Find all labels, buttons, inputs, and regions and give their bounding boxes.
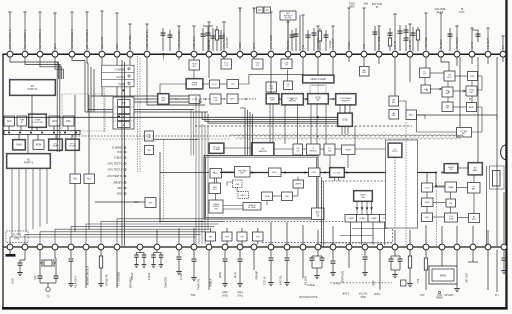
block RL2 (84, 174, 95, 184)
red scan specks on dashed connectors (59, 89, 470, 222)
svg-text:OUT: OUT (459, 10, 465, 14)
pin 1 (top) stub and label (8, 12, 12, 51)
pin 21 (top) stub and label (331, 26, 335, 51)
svg-text:VBK: VBK (161, 100, 166, 102)
wires right column (427, 168, 474, 218)
svg-text:FP AGO: FP AGO (445, 294, 454, 297)
wire OO FRST down (394, 157, 396, 228)
pin 19 (top) circle (300, 51, 306, 57)
long stub below pin 45 (209, 250, 213, 290)
dashed band y136 left part (72, 135, 230, 137)
wire HB VB to bus corner (154, 139, 198, 221)
horizontal bus y117 (3, 116, 338, 118)
svg-text:TRAP: TRAP (448, 186, 454, 189)
block AV SW2 (389, 110, 399, 120)
wire y96 into port column (91, 96, 120, 118)
pin 23 (top) circle (361, 51, 367, 57)
pin 64 (bottom) circle (501, 244, 507, 250)
stub below pin 62 (468, 250, 478, 262)
capacitor cluster C-top1 (x203-213) (201, 26, 216, 51)
capacitor C-b6 below pin 44 (191, 250, 197, 281)
stub below pin 56 and BAT V label (343, 250, 380, 296)
stub below pin 48 (253, 250, 255, 270)
svg-text:(O2): (O2) (437, 295, 442, 297)
svg-text:DET: DET (462, 133, 467, 135)
svg-text:O-BUS: O-BUS (114, 157, 122, 160)
block H/12 (210, 80, 220, 88)
pin 31 (top) stub and label (486, 28, 490, 51)
svg-text:SW: SW (214, 208, 217, 210)
block 3Y ASL (468, 183, 481, 194)
svg-text:OUT: OUT (252, 43, 256, 49)
top components x388-420 (caps and resistors) (388, 25, 420, 51)
svg-text:DET: DET (469, 92, 474, 94)
pin 37 (bottom) circle (68, 244, 74, 250)
connector box below pin 60 (429, 250, 457, 284)
svg-text:TRAP FIL: TRAP FIL (197, 278, 201, 290)
svg-text:KEY MATRIX 0: KEY MATRIX 0 (8, 29, 12, 49)
svg-text:0.68uF: 0.68uF (209, 278, 213, 287)
block J2 (right edge) (490, 166, 505, 189)
wire top pin 5 to clock bundle (72, 57, 85, 61)
wire top x163 components (161, 28, 173, 51)
capacitor C-b2 below pin 37 (68, 250, 74, 287)
svg-text:RAM: RAM (16, 144, 21, 147)
block B DEMOD (307, 144, 321, 155)
dashed band y139 (90, 138, 230, 140)
pin 15 (top) stub and label (238, 8, 242, 51)
svg-text:CLAMP: CLAMP (213, 148, 221, 151)
wires right-top section (395, 57, 482, 132)
svg-text:-NAV: -NAV (133, 201, 139, 204)
svg-text:DIV: DIV (256, 65, 260, 67)
svg-text:+: + (361, 252, 363, 256)
block PAL PAT DET (235, 167, 251, 178)
capacitor C-b10 below pin 50 (284, 250, 290, 286)
svg-text:CPU TEST 1: CPU TEST 1 (108, 169, 123, 172)
IC body top edge (2, 53, 505, 55)
block MG BYPASS ECTM (top) (280, 11, 296, 20)
block TNT (210, 169, 222, 179)
pin 20 (top) circle (315, 51, 321, 57)
wire top pin 6 to clock bundle (87, 57, 88, 63)
svg-text:SP MUTE: SP MUTE (105, 274, 109, 286)
svg-text:GND: GND (11, 278, 15, 284)
svg-text:EXTEND: EXTEND (248, 207, 257, 209)
wires in video box (215, 172, 257, 209)
svg-text:CLAMP: CLAMP (348, 217, 355, 220)
clock output label table C.WAKE/CLOCK/CLKB (102, 65, 135, 91)
block BPF (468, 72, 478, 81)
svg-text:DEMOD: DEMOD (309, 150, 317, 152)
svg-text:SUM: SUM (449, 218, 454, 220)
svg-text:(220): (220) (218, 272, 222, 278)
wires I/O SW down stubs (335, 177, 339, 181)
junction dots main line (251, 116, 437, 187)
svg-text:FRST: FRST (392, 151, 398, 153)
block TONE COUPLER (28, 114, 47, 128)
pin 45 (bottom) circle (206, 244, 212, 250)
pin 4 (top) circle (52, 51, 58, 57)
svg-text:VDD: VDD (360, 296, 365, 299)
svg-text:AMP: AMP (473, 169, 478, 172)
svg-text:TNT: TNT (214, 173, 219, 175)
wire RL2 up (88, 95, 90, 174)
vertical wire x478 (477, 57, 479, 163)
pin 1 (top) circle (7, 51, 13, 57)
block HB VB (left mid) (145, 131, 154, 141)
wire SELL to right edge (417, 115, 498, 120)
svg-text:H/12: H/12 (212, 84, 217, 86)
wire top pin 1 to I/O PORT R (10, 57, 59, 79)
svg-text:LVB: LVB (214, 100, 218, 102)
pin 24 (top) circle (376, 51, 382, 57)
block CB 5V (293, 144, 303, 155)
svg-text:SACS: SACS (240, 194, 246, 197)
svg-text:HCB OUT: HCB OUT (192, 36, 196, 49)
pin 48 (bottom) circle (251, 244, 257, 250)
block OO FRST (388, 143, 403, 158)
pin 54 (bottom) circle (346, 244, 352, 250)
pin 62 (bottom) circle (470, 244, 476, 250)
capacitor pair below pin 57 (389, 250, 403, 278)
pin 10 (top) stub and label (145, 24, 149, 51)
pin 35 (bottom) circle (37, 244, 43, 250)
svg-text:OSC: OSC (66, 121, 71, 123)
svg-text:KEY MATRIX 1: KEY MATRIX 1 (23, 29, 27, 49)
pin 18 (top) stub and label (286, 22, 290, 51)
pin 28 (top) circle (438, 51, 444, 57)
block AV SEL (389, 96, 399, 106)
svg-text:OSD: OSD (342, 119, 348, 122)
wire bottom pin 38 riser (86, 224, 219, 245)
svg-text:P.SIG: P.SIG (347, 41, 351, 49)
dashed vertical x406 (405, 122, 407, 246)
block AFI (422, 213, 433, 222)
dashed enclosure clock generator (62, 94, 105, 131)
block ADD CYL (312, 208, 325, 220)
svg-text:SYO: SYO (213, 189, 218, 191)
svg-text:SDA: SDA (115, 43, 119, 49)
svg-text:SIF OUT: SIF OUT (465, 272, 469, 283)
pin 30 (top) circle (469, 51, 475, 57)
wire bottom pin 36 riser (55, 229, 210, 244)
block I/O SW (329, 167, 345, 178)
svg-text:ACB OUT: ACB OUT (74, 276, 78, 288)
pin 17 (top) stub and label (269, 12, 273, 51)
pin 2 (top) circle (22, 51, 28, 57)
svg-text:TRAP: TRAP (345, 149, 351, 152)
capacitor pair C-b4 below pin 42 (147, 250, 163, 280)
block ROM (33, 140, 44, 150)
svg-text:(22u): (22u) (237, 292, 243, 294)
svg-text:(220): (220) (222, 292, 228, 294)
pin 55 (bottom) circle (362, 244, 368, 250)
wire RS1 up (74, 95, 76, 174)
pin 41 (bottom) circle (137, 244, 143, 250)
vertical bus group x245-252 into video box (240, 108, 253, 156)
pin 19 (top) stub and label (301, 15, 305, 51)
stub below pin 51 (302, 250, 304, 278)
vertical double bus right of PORT R (56, 62, 58, 152)
block TRAP2 (445, 182, 457, 192)
block RS1 (70, 174, 81, 184)
stub below pin 61 (454, 250, 460, 292)
video processor enclosure box (204, 156, 318, 220)
svg-text:CLAMP: CLAMP (359, 217, 366, 220)
svg-text:E.WAKE: E.WAKE (112, 147, 122, 150)
vertical wire x122 (122, 60, 125, 246)
svg-text:IN: IN (266, 9, 269, 12)
svg-text:VDD: VDD (117, 193, 122, 196)
capacitor C-top7 (x478) (472, 30, 481, 42)
pin 40 (bottom) circle (114, 244, 120, 250)
svg-text:VCO: VCO (238, 42, 242, 49)
svg-text:DET: DET (240, 173, 245, 175)
resistor R-b3 below pin 59 (416, 250, 428, 290)
block VXB (233, 180, 243, 188)
pin 52 (bottom) circle (315, 244, 321, 250)
wire bottom pin 40 riser (117, 219, 228, 245)
block OSD (337, 113, 353, 127)
capacitor C-b13 below pin 64 (501, 250, 507, 274)
pin 3 (top) circle (37, 51, 43, 57)
pin 49 (bottom) circle (268, 244, 274, 250)
crystal X1 circuit below pins 35-36 (38, 250, 59, 299)
svg-text:SIF IN: SIF IN (393, 41, 397, 49)
svg-text:APC FIL: APC FIL (279, 275, 283, 285)
block Y/C MATRIX (251, 142, 274, 157)
svg-text:5V: 5V (317, 100, 320, 102)
pin 27 (top) stub and label (424, 13, 428, 51)
wires bottom inner row stubs (211, 228, 258, 245)
pin 27 (top) circle (423, 51, 429, 57)
pin 16 (top) stub and label (252, 8, 256, 51)
pin 38 (bottom) circle (83, 244, 89, 250)
svg-text:CLAMP: CLAMP (371, 217, 378, 220)
pin 7 (top) circle (99, 51, 105, 57)
svg-text:AV IN: AV IN (470, 42, 474, 49)
block SYNC SEP (266, 93, 280, 104)
svg-text:RESET: RESET (114, 182, 123, 185)
pin 9 (top) stub and label (128, 24, 132, 51)
block CYCL TIMER (48, 139, 63, 151)
pin 22 (top) stub and label (347, 8, 351, 51)
block ACC (video line) (269, 168, 282, 177)
block RAM (12, 139, 26, 150)
svg-text:0.45uF: 0.45uF (307, 284, 315, 287)
svg-text:SYNC SEL: SYNC SEL (128, 34, 132, 49)
block SINGLE EXTENDER (243, 203, 261, 211)
pin 23 (top) stub and label (362, 8, 366, 51)
block TIMER B (17, 116, 27, 126)
wires DDA YNO (203, 177, 298, 206)
svg-text:AIN: AIN (362, 44, 366, 49)
pin 24 (top) stub and label (377, 26, 381, 51)
svg-text:PORT R: PORT R (28, 87, 38, 91)
pin 31 (top) circle (485, 51, 491, 57)
svg-text:CLOCK: CLOCK (116, 75, 125, 79)
block TN (253, 232, 264, 241)
block VIDEO SW (right) (444, 163, 459, 173)
capacitor C-top6 (x450) (448, 28, 453, 51)
vertical risers from bottom pins mid (157, 192, 504, 245)
svg-text:IF +: IF + (495, 294, 500, 297)
wire bottom pin 39 riser (101, 221, 223, 244)
svg-text:BM: BM (209, 236, 212, 238)
svg-text:(47u): (47u) (237, 296, 243, 298)
svg-text:BW4: BW4 (425, 202, 431, 204)
pin 4 (top) stub and label (53, 13, 57, 51)
block AMP3 (293, 180, 304, 188)
pin 11 (top) stub and label (177, 26, 181, 51)
block DDA (262, 192, 273, 201)
wire top stub x240 tall (239, 8, 241, 12)
wire top pin 4 to I/O PORT R (55, 57, 63, 79)
stub below pin 63 and IF label (488, 250, 500, 297)
capacitor C-b9 below pin 49 (268, 250, 274, 286)
resistor R-top2 (x320) (318, 28, 328, 51)
svg-text:7pF: 7pF (33, 275, 37, 280)
svg-text:RS1: RS1 (73, 179, 78, 181)
wires pins 7-10 to mid bus (102, 57, 205, 105)
pin 58 (bottom) circle (407, 244, 413, 250)
svg-text:CPU TEST 0: CPU TEST 0 (108, 163, 123, 166)
svg-text:DNC: DNC (362, 72, 367, 74)
block INTL COUNTER (65, 139, 80, 151)
capacitor C-b8 below pin 47 (233, 250, 243, 287)
capacitor C-top5 (x375) (373, 26, 380, 51)
svg-text:MONITOR OUT: MONITOR OUT (86, 266, 90, 285)
svg-text:CLK: CLK (53, 43, 57, 49)
pin 32 (top) circle (500, 51, 506, 57)
small box CHECK (top) (257, 7, 264, 13)
small box ICT (top) (264, 7, 271, 13)
svg-text:REF: REF (350, 6, 355, 9)
wire bottom pin 37 riser (71, 227, 214, 245)
pin 26 (top) circle (407, 51, 413, 57)
svg-text:47k: 47k (416, 278, 420, 283)
vertical wire x497 (496, 57, 498, 246)
block SIF (421, 85, 431, 93)
svg-text:VGB: VGB (235, 184, 240, 186)
svg-text:100uF/4V: 100uF/4V (226, 37, 229, 48)
pin 26 (top) stub and label (408, 24, 412, 51)
svg-text:FG: FG (258, 9, 261, 12)
pin 56 (bottom) circle (377, 244, 383, 250)
capacitor group C-top3 (x292-300) (290, 15, 301, 51)
svg-text:TIMER: TIMER (52, 146, 59, 148)
svg-text:VRAMP: VRAMP (255, 271, 259, 280)
svg-text:RL2: RL2 (87, 179, 92, 181)
pin 14 (top) stub and label (222, 22, 226, 51)
svg-text:FM OUT: FM OUT (486, 38, 490, 49)
block 3N (446, 199, 456, 207)
pin 11 (top) circle (176, 51, 182, 57)
svg-text:(470): (470) (222, 296, 228, 298)
block AV REC (469, 214, 480, 223)
wires control row (279, 70, 351, 113)
net circle O2 NEMO (438, 291, 440, 293)
block FM DET (442, 87, 453, 97)
block BW (left mid) (145, 146, 154, 155)
svg-text:IMT: IMT (312, 172, 316, 174)
block YNO (282, 192, 293, 201)
wire RS1 down (74, 184, 76, 233)
pin 30 (top) stub and label (470, 28, 474, 51)
svg-text:AIN: AIN (364, 3, 368, 6)
pin 18 (top) circle (285, 51, 291, 57)
svg-text:ROM: ROM (36, 145, 41, 147)
capacitor C-b11 below pin 53 (330, 250, 336, 276)
wires mid row connections (224, 148, 386, 149)
RGB output dashed enclosure (322, 181, 393, 243)
svg-text:IREF: IREF (372, 280, 376, 286)
vertical bus x85-100 (85, 61, 208, 113)
dashed band y221 (204, 221, 345, 223)
horizontal connectors below dashed box (340, 229, 388, 236)
wire bottom pin 33 riser (10, 237, 196, 245)
svg-text:TN): TN) (256, 236, 260, 238)
svg-text:COUNT: COUNT (69, 146, 77, 148)
pin 7 (top) stub and label (100, 11, 104, 51)
block FBP (227, 80, 239, 89)
svg-text:FM FIL: FM FIL (408, 39, 412, 49)
wire bottom pin 34 riser (25, 234, 201, 244)
svg-text:33uF/16V: 33uF/16V (164, 276, 168, 288)
pin 51 (bottom) circle (300, 244, 306, 250)
pin 8 (top) stub and label (115, 13, 119, 51)
dashed wire y283 bottom (330, 280, 406, 286)
svg-text:BAT V: BAT V (343, 293, 350, 296)
svg-text:REC: REC (472, 219, 477, 221)
wires control row down to demod row (270, 104, 355, 145)
svg-text:TOC: TOC (419, 294, 424, 297)
CPU port column block PB/D/C/A (113, 97, 134, 129)
block OSC (63, 116, 74, 126)
svg-text:AMP: AMP (469, 106, 474, 109)
capacitor C-top4 (x308) (306, 28, 317, 51)
pin 53 (bottom) circle (330, 244, 336, 250)
pin 29 (top) stub and label (455, 26, 459, 51)
svg-text:(FRAME): (FRAME) (129, 277, 133, 288)
capacitor pair below pin 52 (310, 250, 325, 279)
block YS CL (284, 81, 293, 90)
svg-text:VCO: VCO (425, 187, 430, 189)
pin 29 (top) circle (454, 51, 460, 57)
scallop shield band y136 (230, 135, 463, 137)
scallop shield band y139b (236, 138, 460, 140)
block 1M AGC (444, 71, 455, 81)
pin 46 (bottom) circle (222, 244, 228, 250)
capacitor C-b1 below pin 34 (17, 250, 25, 276)
svg-text:DDA: DDA (265, 195, 270, 198)
svg-text:AGC: AGC (447, 76, 452, 79)
svg-text:ELCT: ELCT (437, 10, 444, 14)
block CSF CE (281, 59, 292, 69)
wires I/O PORT S down to riser bus (12, 169, 47, 237)
pin 17 (top) circle (268, 51, 274, 57)
block AV AMP (468, 162, 483, 175)
block YUO SUM (445, 213, 458, 222)
svg-text:C.WAKE: C.WAKE (115, 68, 125, 72)
pin 25 (top) circle (392, 51, 398, 57)
pin 60 (bottom) circle (439, 244, 445, 250)
svg-text:J6 OUT: J6 OUT (439, 39, 443, 49)
svg-text:(M (N RUUYOTE: (M (N RUUYOTE (299, 296, 318, 299)
vertical wires x321 through dashed box (322, 177, 324, 247)
wire I/O PORT S to bus (27, 135, 29, 155)
